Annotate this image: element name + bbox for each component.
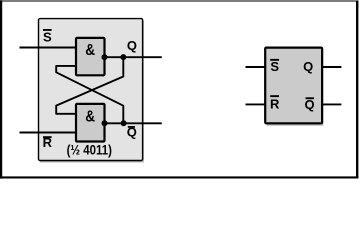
svg-text:R: R (270, 96, 280, 111)
svg-text:(½ 4011): (½ 4011) (67, 142, 112, 157)
NAND gate U1a (76, 38, 105, 75)
label S-bar pin (270, 59, 279, 74)
label S-bar input (43, 29, 52, 45)
label Q-bar output (127, 124, 137, 139)
svg-text:&: & (85, 42, 95, 59)
node U1a output junction (102, 54, 108, 60)
wire S-bar input (20, 47, 77, 49)
wire R-bar to symbol (246, 103, 266, 105)
node U1b output junction (102, 120, 108, 126)
svg-text:Q: Q (305, 97, 315, 112)
svg-text:R: R (43, 135, 53, 150)
latch symbol U2 (265, 48, 323, 126)
label R-bar input (43, 135, 53, 150)
wire R-bar input (20, 132, 77, 134)
wire Q-bar output (105, 122, 162, 124)
svg-text:Q: Q (303, 59, 313, 74)
NAND gate U1b (76, 104, 105, 142)
node Q feedback junction (120, 54, 126, 60)
wire Q-bar from symbol (322, 103, 341, 105)
wire Q from symbol (322, 66, 341, 68)
svg-text:Q: Q (127, 38, 137, 53)
svg-text:Q: Q (127, 124, 137, 139)
node Q-bar feedback junction (121, 120, 127, 126)
svg-text:S: S (270, 59, 279, 74)
svg-text:&: & (85, 108, 95, 125)
wire Q output (105, 56, 162, 58)
feedback wire from Q junction to U1b upper input (56, 57, 123, 114)
feedback wire from Q-bar junction to U1a lower input (56, 66, 123, 123)
label R-bar pin (270, 95, 280, 111)
svg-text:S: S (43, 30, 52, 45)
wire S-bar to symbol (246, 66, 266, 68)
label Q-bar pin (305, 97, 315, 112)
NAND latch enclosure panel (39, 19, 144, 163)
